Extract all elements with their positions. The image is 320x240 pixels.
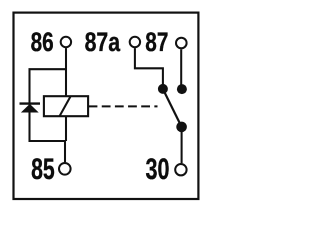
svg-text:30: 30 [146,154,170,186]
svg-text:87: 87 [145,28,168,58]
svg-text:86: 86 [31,28,54,58]
svg-text:85: 85 [31,154,55,186]
svg-text:87a: 87a [85,28,121,58]
